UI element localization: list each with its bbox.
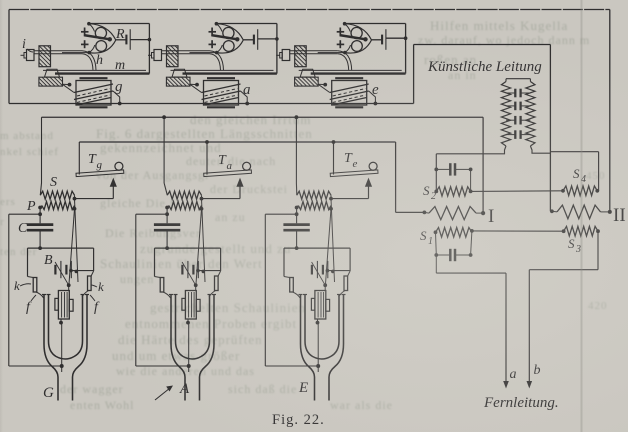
wire key common bus xyxy=(79,141,395,143)
wire bridge I left bus top xyxy=(435,154,437,192)
wire S1 to S3 xyxy=(472,230,564,232)
wire transformer g to bottom bus xyxy=(113,91,120,104)
svg-text:C: C xyxy=(18,221,28,236)
blocking capacitor C channel a xyxy=(154,223,180,226)
svg-text:S: S xyxy=(423,183,430,198)
hatched support wedge xyxy=(295,77,319,86)
relay contact screws xyxy=(209,31,217,33)
wire pear tip to battery xyxy=(116,39,127,41)
hatched block (carbon holder) xyxy=(295,46,307,67)
svg-text:I: I xyxy=(488,206,494,227)
wire battery to return riser xyxy=(130,39,149,41)
battery box B channel g xyxy=(28,247,94,249)
relay contact screws xyxy=(337,31,345,33)
wire Kuenstliche Leitung frame right down to node II left xyxy=(549,45,551,212)
relay local battery unit g xyxy=(125,35,127,45)
svg-text:i: i xyxy=(22,37,26,52)
wire frame left edge xyxy=(8,10,10,104)
artificial line right resistor chain xyxy=(526,82,535,147)
microphone plug unit a xyxy=(154,50,162,61)
rod (double line) xyxy=(34,50,82,52)
wire transformer a to microphone support xyxy=(190,84,202,92)
battery B channel a xyxy=(181,265,183,275)
wire transformer a to bottom bus xyxy=(241,91,248,104)
svg-text:b: b xyxy=(534,363,541,378)
stem lead channel a xyxy=(186,321,190,325)
svg-text:R: R xyxy=(115,27,125,42)
svg-text:e: e xyxy=(372,82,379,98)
key arrow contact Ta xyxy=(239,185,241,199)
key lever Te xyxy=(333,142,335,175)
return riser wire xyxy=(148,24,150,74)
svg-text:S: S xyxy=(573,166,580,181)
wire pear tip to battery xyxy=(372,39,383,41)
relay armature bar xyxy=(84,35,110,39)
capacitor artificial line 1 xyxy=(506,92,515,94)
wire battery to return riser xyxy=(386,37,406,39)
svg-text:G: G xyxy=(43,385,54,401)
contact springs k channel e xyxy=(290,278,294,293)
resistor S4 xyxy=(563,186,597,196)
wire bus to S potentiometers (node row) xyxy=(42,116,484,118)
svg-text:4: 4 xyxy=(581,174,586,185)
valve envelope (U tube) channel a xyxy=(171,295,185,401)
svg-text:S: S xyxy=(50,175,57,190)
wire relay top to return riser xyxy=(345,23,406,25)
return riser wire xyxy=(405,24,407,74)
support pedestal xyxy=(172,69,187,77)
wire feed to potentiometer channel g xyxy=(41,117,43,183)
transformer e xyxy=(332,81,367,106)
svg-text:B: B xyxy=(44,253,53,268)
stem lead channel e xyxy=(316,321,320,325)
hatched support wedge xyxy=(39,77,63,86)
svg-text:g: g xyxy=(115,79,123,95)
wire frame right edge down to node II xyxy=(609,10,611,212)
node P channel a xyxy=(165,206,169,210)
potentiometer S channel a (two rows) xyxy=(167,191,201,199)
svg-text:3: 3 xyxy=(575,244,581,255)
curved tube h unit g xyxy=(82,51,96,71)
wire S3 to line b xyxy=(597,231,599,270)
svg-text:a: a xyxy=(510,367,517,382)
capacitor artificial line 3 xyxy=(506,119,515,121)
potentiometer S channel g (two rows) xyxy=(40,191,74,199)
battery B channel e xyxy=(311,265,313,275)
svg-text:1: 1 xyxy=(428,236,433,247)
svg-text:m: m xyxy=(115,58,125,73)
valve envelope (U tube) channel g xyxy=(44,295,58,401)
wire feed to potentiometer channel e xyxy=(295,117,297,183)
capacitor artificial line 2 xyxy=(506,105,515,107)
wire artificial line right chain to frame right xyxy=(530,146,550,153)
capacitor across S1 xyxy=(436,254,450,256)
svg-text:f: f xyxy=(94,300,100,315)
relay armature bar xyxy=(211,35,237,39)
svg-text:e: e xyxy=(353,158,358,170)
wiper wires to valve channel e xyxy=(331,199,335,282)
key lever Tg xyxy=(78,142,80,175)
capacitor across S2 xyxy=(436,168,450,170)
wire return (left) channel a xyxy=(136,213,167,215)
wire battery to return riser xyxy=(258,38,277,40)
wire S4 top xyxy=(550,151,598,153)
svg-text:S: S xyxy=(420,228,427,243)
relay coil circles unit a xyxy=(223,27,234,38)
node P channel g xyxy=(38,206,42,210)
svg-text:II: II xyxy=(613,205,626,226)
wire feed to potentiometer channel a xyxy=(163,117,165,183)
wire pear tip to battery xyxy=(243,39,254,41)
hatched support wedge xyxy=(166,77,190,86)
membrane plate m xyxy=(171,69,274,71)
wire transformer e to bottom bus xyxy=(369,91,376,104)
bridge I middle resistor xyxy=(423,211,427,215)
wire return (left) channel g xyxy=(9,213,40,215)
microphone plug i unit g xyxy=(27,50,35,61)
svg-text:S: S xyxy=(568,236,575,251)
wire top bus (frame top edge) xyxy=(9,9,610,11)
svg-text:k: k xyxy=(98,279,104,294)
battery box B channel a xyxy=(155,247,221,249)
microphone plug unit e xyxy=(282,50,290,61)
key arrow contact Tg xyxy=(112,185,114,199)
support pedestal xyxy=(300,69,315,77)
membrane plate m xyxy=(299,69,402,71)
key lever Ta xyxy=(206,142,208,175)
relay armature bar xyxy=(340,35,366,39)
wire S2 to S4 xyxy=(471,190,563,193)
wire Kuenstliche Leitung frame left xyxy=(413,45,415,104)
relay pole-piece outline xyxy=(89,24,116,40)
svg-text:f: f xyxy=(26,300,32,315)
arrow line b xyxy=(527,381,533,389)
stem lead channel g xyxy=(59,321,63,325)
curved tube h unit e xyxy=(338,51,352,71)
valve envelope (U tube) channel e xyxy=(301,295,315,401)
support pedestal xyxy=(45,69,60,77)
wire transformer g to microphone support xyxy=(63,84,75,92)
svg-text:P: P xyxy=(26,199,36,214)
battery B channel g xyxy=(54,265,56,275)
wire artificial line left chain to bridge I top xyxy=(436,146,506,154)
blocking capacitor C channel e xyxy=(283,223,309,226)
rod (double line) xyxy=(162,50,210,52)
wiper wires to valve channel a xyxy=(202,199,206,282)
contact springs k channel a xyxy=(160,278,164,293)
relay pole-piece outline xyxy=(345,24,372,40)
relay pole-piece outline xyxy=(216,24,243,40)
hatched block (carbon holder) xyxy=(39,46,51,67)
battery box B channel e xyxy=(284,247,350,249)
svg-text:2: 2 xyxy=(431,191,436,202)
svg-text:Fig. 22.: Fig. 22. xyxy=(272,412,325,428)
resistor S3 xyxy=(564,226,598,236)
rod (double line) xyxy=(290,50,338,52)
electrode assembly channel a xyxy=(185,291,196,320)
blocking capacitor C channel g xyxy=(27,223,53,226)
relay local battery unit a xyxy=(253,35,255,45)
wiper wires to valve channel g xyxy=(75,199,79,282)
wire bottom bus of microphone section xyxy=(9,103,414,105)
transformer a xyxy=(204,81,239,106)
wire S fold to key contact channel a xyxy=(202,198,241,200)
relay contact screws xyxy=(81,31,89,33)
relay local battery unit e xyxy=(381,35,383,45)
artificial line left resistor chain xyxy=(501,82,510,147)
wire relay top to return riser xyxy=(89,23,149,25)
svg-text:Künstliche Leitung: Künstliche Leitung xyxy=(427,59,542,75)
wire Kuenstliche Leitung frame top xyxy=(414,44,551,46)
svg-text:k: k xyxy=(14,278,20,293)
key arrow contact Te xyxy=(368,185,370,199)
wire S fold to key contact channel g xyxy=(75,198,114,200)
curved tube h unit a xyxy=(210,51,224,71)
return riser wire xyxy=(276,24,278,74)
resistor S1 xyxy=(436,228,472,238)
wire return (left) channel e xyxy=(265,213,296,215)
svg-text:a: a xyxy=(227,160,233,172)
arrow line a xyxy=(503,381,509,389)
wire S fold to key contact channel e xyxy=(331,198,369,200)
svg-text:h: h xyxy=(96,53,103,68)
node P channel e xyxy=(295,206,299,210)
svg-text:g: g xyxy=(97,159,103,171)
wire bridge I bottom to line a xyxy=(436,272,506,274)
wire relay top to return riser xyxy=(216,23,277,25)
wire transformer e to microphone support xyxy=(318,84,330,92)
potentiometer S channel e (two rows) xyxy=(297,191,331,199)
svg-text:a: a xyxy=(243,82,251,98)
electrode assembly channel e xyxy=(315,291,326,320)
relay coil circles unit e xyxy=(351,27,362,38)
relay coil circles unit g xyxy=(95,27,106,38)
wire chain top fold xyxy=(506,78,530,80)
svg-text:A: A xyxy=(179,381,190,397)
transformer g xyxy=(76,81,111,106)
bridge II middle resistor xyxy=(550,209,554,213)
svg-text:Fernleitung.: Fernleitung. xyxy=(483,395,559,411)
svg-text:E: E xyxy=(298,380,308,396)
hatched block (carbon holder) xyxy=(167,46,179,67)
contact springs k channel g xyxy=(33,278,37,293)
wire riser bus to node I xyxy=(482,117,484,213)
capacitor artificial line 4 xyxy=(506,134,515,136)
resistor S2 xyxy=(436,187,470,196)
electrode assembly channel g xyxy=(58,291,69,320)
membrane plate m xyxy=(43,69,146,71)
node I xyxy=(481,211,485,215)
arrow marker near A xyxy=(155,388,170,400)
